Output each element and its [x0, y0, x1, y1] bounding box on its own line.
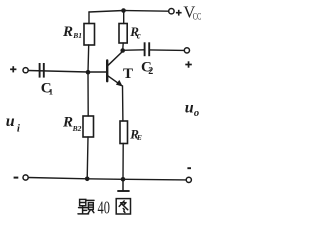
wire top rail	[89, 11, 169, 13]
resistor RB1	[84, 24, 95, 46]
svg-text:B2: B2	[72, 124, 82, 133]
capacitor C2	[145, 42, 150, 56]
wire RB1 top lead	[88, 12, 90, 24]
wire C1 to base node	[28, 71, 88, 73]
capacitor C1	[40, 63, 44, 78]
wire RB1 bottom lead	[87, 45, 90, 72]
svg-text:i: i	[17, 122, 21, 134]
svg-text:R: R	[62, 24, 73, 40]
resistor RB2	[83, 116, 94, 137]
svg-text:u: u	[6, 113, 15, 130]
svg-text:c: c	[137, 31, 141, 41]
transistor T	[107, 51, 123, 85]
wire bottom rail	[28, 178, 186, 180]
label +Vcc	[176, 10, 182, 16]
svg-text:T: T	[123, 66, 133, 82]
resistor RE	[120, 121, 128, 144]
resistor RC	[119, 24, 127, 44]
node top rail junction	[121, 8, 126, 13]
label output minus sign	[187, 167, 191, 169]
terminal input +	[23, 68, 28, 73]
svg-text:u: u	[185, 99, 194, 116]
node base junction	[86, 70, 91, 75]
svg-text:o: o	[194, 108, 199, 119]
wire base node to transistor	[88, 71, 106, 73]
terminal Vcc	[169, 9, 174, 14]
transistor emitter arrow	[116, 80, 123, 87]
terminal input -	[23, 175, 28, 180]
caption char 题	[78, 199, 94, 214]
node junction below RC	[120, 48, 125, 53]
label output plus sign	[185, 61, 192, 67]
svg-text:40: 40	[98, 197, 110, 217]
svg-text:2: 2	[148, 66, 153, 77]
label input minus sign	[14, 177, 19, 179]
wire RB2 bottom lead	[86, 137, 89, 179]
svg-text:1: 1	[49, 87, 53, 97]
svg-text:R: R	[62, 115, 73, 131]
terminal output -	[186, 177, 191, 182]
node emitter bottom junction	[121, 177, 126, 182]
wire C2 to output terminal	[150, 49, 185, 52]
svg-text:B1: B1	[72, 31, 82, 40]
svg-text:CC: CC	[193, 11, 202, 21]
wire collector node to C2	[123, 49, 144, 52]
terminal output +	[184, 48, 189, 53]
wire RE bottom lead	[122, 144, 124, 180]
label input plus sign	[10, 66, 16, 72]
ground	[117, 179, 129, 191]
wire RC bottom lead	[122, 43, 125, 51]
svg-text:E: E	[136, 133, 142, 142]
node RB2 bottom junction	[85, 177, 90, 182]
caption char 图	[116, 199, 130, 214]
wire emitter down	[122, 86, 124, 121]
wire RC top lead	[123, 11, 125, 24]
wire base node to RB2	[87, 72, 89, 116]
